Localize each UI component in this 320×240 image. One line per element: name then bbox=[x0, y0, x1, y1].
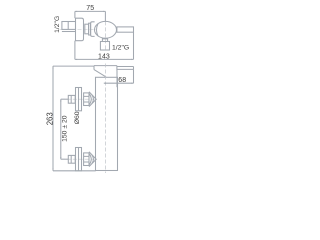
handle base (front view) bbox=[94, 66, 117, 77]
dim 143 extension left bbox=[74, 41, 76, 60]
body column bbox=[96, 77, 118, 170]
dim 143 line bbox=[75, 58, 134, 60]
dim 68 extension left (body edge) bbox=[116, 71, 118, 88]
dim 68 extension right bbox=[133, 69, 135, 83]
dim 150 stub lower bbox=[61, 158, 69, 160]
upper union center line bbox=[61, 98, 96, 100]
svg-text:1/2"G: 1/2"G bbox=[54, 16, 61, 33]
svg-text:150 ± 20: 150 ± 20 bbox=[61, 115, 68, 142]
lower union flange bbox=[76, 148, 82, 171]
upper union flange bbox=[76, 88, 82, 111]
side view horizontal center line bbox=[60, 29, 97, 31]
lever bar (front view) bbox=[117, 67, 134, 70]
dim 263 top extension bbox=[53, 65, 94, 67]
cartridge connector bbox=[85, 24, 89, 34]
inlet pipe (side view) bbox=[62, 22, 76, 30]
dim 75 extension left bbox=[74, 11, 76, 18]
dim 75 extension right / knob center line bbox=[104, 11, 106, 21]
upper union pipe bbox=[68, 95, 75, 103]
lower union nut bbox=[84, 153, 89, 166]
svg-text:Ø60: Ø60 bbox=[74, 111, 81, 124]
lever (side view) bbox=[117, 27, 134, 32]
dim 150±20 line bbox=[60, 99, 62, 159]
dim 75 line bbox=[75, 10, 106, 12]
lower union pipe bbox=[68, 155, 75, 163]
svg-text:1/2"G: 1/2"G bbox=[112, 45, 129, 52]
knob ellipse bbox=[95, 21, 117, 38]
svg-text:263: 263 bbox=[46, 112, 55, 125]
outlet neck bbox=[102, 38, 107, 42]
dim 263 bottom extension bbox=[53, 170, 96, 172]
dim 143 extension right bbox=[133, 32, 135, 59]
knob base ring bbox=[89, 23, 91, 35]
dim 150 stub upper bbox=[61, 98, 69, 100]
svg-text:75: 75 bbox=[86, 5, 94, 12]
lower union cone bbox=[89, 152, 96, 167]
lower union center line bbox=[61, 158, 96, 160]
upper union cone bbox=[89, 92, 96, 107]
body center line bbox=[105, 64, 107, 174]
knob cap bbox=[91, 22, 95, 37]
knob inner arc bbox=[97, 24, 99, 36]
outlet nut bbox=[100, 42, 109, 51]
wall plate (side view) bbox=[76, 18, 84, 41]
upper union nut bbox=[84, 93, 89, 106]
dim 263 line bbox=[52, 66, 54, 171]
dim 68 line bbox=[104, 82, 134, 84]
knob vertical center line bbox=[104, 21, 106, 50]
